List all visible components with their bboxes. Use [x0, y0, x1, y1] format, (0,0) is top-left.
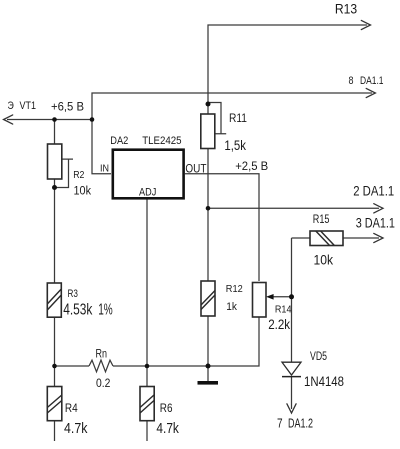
svg-text:0.2: 0.2 — [96, 377, 110, 390]
svg-text:3 DA1.1: 3 DA1.1 — [356, 214, 395, 230]
svg-text:VT1: VT1 — [20, 100, 37, 112]
svg-text:R2: R2 — [73, 170, 85, 181]
svg-text:1,5k: 1,5k — [224, 138, 246, 153]
svg-text:DA1.1: DA1.1 — [360, 75, 384, 87]
svg-text:R12: R12 — [226, 283, 243, 295]
svg-text:8: 8 — [349, 75, 354, 87]
svg-text:ADJ: ADJ — [139, 186, 156, 198]
svg-text:1k: 1k — [226, 301, 237, 313]
svg-text:R13: R13 — [335, 1, 358, 16]
svg-text:Rn: Rn — [96, 347, 108, 361]
svg-text:2 DA1.1: 2 DA1.1 — [353, 182, 394, 198]
svg-text:4.7k: 4.7k — [64, 421, 88, 437]
svg-text:+2,5 В: +2,5 В — [235, 159, 268, 173]
svg-text:4.53k: 4.53k — [63, 302, 92, 319]
svg-text:R14: R14 — [275, 304, 292, 315]
svg-text:1N4148: 1N4148 — [304, 373, 344, 389]
svg-text:R6: R6 — [160, 401, 173, 415]
svg-text:OUT: OUT — [185, 162, 206, 175]
svg-text:IN: IN — [100, 163, 109, 175]
svg-text:R11: R11 — [229, 113, 247, 125]
svg-text:VD5: VD5 — [310, 351, 327, 363]
svg-text:+6,5 В: +6,5 В — [51, 100, 84, 114]
svg-text:R4: R4 — [65, 401, 78, 415]
svg-text:4.7k: 4.7k — [156, 421, 179, 437]
svg-text:10k: 10k — [314, 251, 334, 267]
svg-text:10k: 10k — [74, 186, 92, 198]
svg-text:2.2k: 2.2k — [268, 317, 290, 332]
svg-text:R3: R3 — [68, 288, 78, 300]
svg-text:DA1.2: DA1.2 — [288, 417, 313, 431]
svg-text:1%: 1% — [98, 302, 113, 319]
svg-text:TLE2425: TLE2425 — [142, 135, 181, 147]
svg-text:Э: Э — [8, 100, 14, 112]
svg-text:7: 7 — [277, 417, 283, 431]
svg-text:R15: R15 — [313, 212, 330, 226]
svg-text:DA2: DA2 — [110, 135, 128, 147]
